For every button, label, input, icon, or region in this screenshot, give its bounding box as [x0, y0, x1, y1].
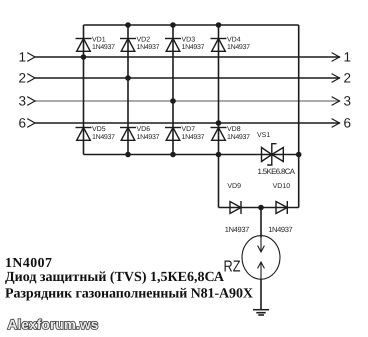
- wire column 2: [127, 25, 129, 155]
- wire line 2: [35, 77, 340, 79]
- junction node 4: [216, 120, 222, 126]
- wire bottom bus (anode bus): [84, 154, 299, 156]
- svg-text:1N4937: 1N4937: [137, 44, 160, 51]
- diode VD8: [211, 128, 227, 141]
- junction node 6: [170, 22, 176, 28]
- wire line 1: [35, 56, 340, 58]
- right pin label 1: [344, 50, 352, 65]
- wire line 3: [35, 100, 340, 102]
- junction node 5: [125, 22, 131, 28]
- svg-text:VD4: VD4: [227, 36, 241, 43]
- label VD7: [182, 126, 196, 133]
- label VD8: [227, 126, 241, 133]
- wire RZ bottom stem: [260, 279, 262, 309]
- right arrow line 3: [332, 97, 340, 106]
- label VD10: [273, 183, 291, 190]
- label VD5: [92, 126, 106, 133]
- svg-text:VS1: VS1: [257, 132, 270, 139]
- svg-text:1N4937: 1N4937: [92, 134, 115, 141]
- text TVS description: [5, 270, 225, 285]
- svg-text:1N4937: 1N4937: [225, 225, 250, 234]
- left pin label 2: [18, 71, 26, 86]
- svg-text:Разрядник газонаполненный N81-: Разрядник газонаполненный N81-A90X: [5, 286, 253, 301]
- right pin label 3: [344, 94, 352, 109]
- diode VD7: [165, 128, 181, 141]
- svg-text:RZ: RZ: [224, 259, 241, 276]
- wire right edge: [298, 25, 300, 208]
- value label VD5 1N4937: [92, 134, 115, 141]
- value label VD8 1N4937: [227, 134, 250, 141]
- label VD4: [227, 36, 241, 43]
- junction node 9: [170, 152, 176, 158]
- diode VD3: [165, 39, 181, 52]
- right arrow line 1: [332, 53, 340, 62]
- svg-text:2: 2: [344, 71, 352, 86]
- junction node 12: [258, 205, 264, 211]
- wire line 6: [35, 122, 340, 124]
- svg-text:VD9: VD9: [227, 183, 241, 190]
- svg-text:Alexforum.ws: Alexforum.ws: [8, 317, 99, 332]
- label RZ: [224, 259, 241, 276]
- ground: [253, 310, 269, 315]
- diode VD1: [76, 39, 92, 52]
- gas discharge tube RZ envelope: [242, 236, 280, 280]
- junction node 1: [81, 54, 87, 60]
- svg-text:1N4937: 1N4937: [182, 44, 205, 51]
- diode VD2: [120, 39, 136, 52]
- svg-text:1N4007: 1N4007: [5, 255, 52, 270]
- svg-text:VD8: VD8: [227, 126, 241, 133]
- junction node 11: [296, 152, 302, 158]
- text gas arrester description: [5, 286, 253, 301]
- wire column 1: [83, 25, 85, 155]
- left arrow line 1: [27, 53, 35, 62]
- label VD3: [182, 36, 196, 43]
- value label VD3 1N4937: [182, 44, 205, 51]
- wire column 4: [218, 25, 220, 208]
- left pin label 6: [18, 116, 26, 131]
- label VD9: [227, 183, 241, 190]
- svg-text:VD5: VD5: [92, 126, 106, 133]
- svg-text:1.5KE6.8CA: 1.5KE6.8CA: [258, 167, 296, 176]
- RZ bottom electrode arrow: [258, 262, 265, 279]
- diode VD10: [276, 201, 287, 214]
- junction node 3: [170, 98, 176, 104]
- left pin label 1: [18, 50, 26, 65]
- left arrow line 3: [27, 97, 35, 106]
- svg-text:1N4937: 1N4937: [92, 44, 115, 51]
- svg-text:1: 1: [18, 50, 26, 65]
- svg-text:3: 3: [18, 94, 26, 109]
- wire column 3: [172, 25, 174, 155]
- junction node 2: [125, 75, 131, 81]
- label VD6: [137, 126, 151, 133]
- svg-text:VD2: VD2: [137, 36, 151, 43]
- left pin label 3: [18, 94, 26, 109]
- svg-text:1N4937: 1N4937: [268, 225, 293, 234]
- svg-text:VD1: VD1: [92, 36, 106, 43]
- diode VD4: [211, 39, 227, 52]
- svg-text:1N4937: 1N4937: [182, 134, 205, 141]
- svg-text:3: 3: [344, 94, 352, 109]
- svg-text:VD6: VD6: [137, 126, 151, 133]
- svg-text:1: 1: [344, 50, 352, 65]
- RZ top electrode arrow: [258, 236, 265, 252]
- svg-text:2: 2: [18, 71, 26, 86]
- wire top bus (cathode bus): [84, 24, 299, 26]
- value label VD10 1N4937: [268, 225, 293, 234]
- diode VD9: [230, 201, 241, 214]
- svg-text:VD7: VD7: [182, 126, 196, 133]
- label VD2: [137, 36, 151, 43]
- svg-text:VD10: VD10: [273, 183, 291, 190]
- svg-text:1N4937: 1N4937: [227, 134, 250, 141]
- svg-text:1N4937: 1N4937: [137, 134, 160, 141]
- right pin label 2: [344, 71, 352, 86]
- label VS1: [257, 132, 270, 139]
- value label VD7 1N4937: [182, 134, 205, 141]
- svg-text:6: 6: [344, 116, 352, 131]
- junction node 10: [216, 152, 222, 158]
- diode VD6: [120, 128, 136, 141]
- label VD1: [92, 36, 106, 43]
- svg-text:Диод защитный (TVS) 1,5КЕ6,8СА: Диод защитный (TVS) 1,5КЕ6,8СА: [5, 270, 225, 285]
- right arrow line 6: [332, 119, 340, 128]
- text part number 1N4007: [5, 255, 52, 270]
- value label VD2 1N4937: [137, 44, 160, 51]
- value label VD9 1N4937: [225, 225, 250, 234]
- diode VD5: [76, 128, 92, 141]
- right arrow line 2: [332, 74, 340, 83]
- watermark Alexforum.ws: [8, 317, 99, 332]
- svg-text:1N4937: 1N4937: [227, 44, 250, 51]
- TVS diode VS1: [262, 144, 284, 165]
- wire RZ top stem: [260, 208, 262, 238]
- junction node 8: [125, 152, 131, 158]
- value label VD6 1N4937: [137, 134, 160, 141]
- junction node 7: [216, 22, 222, 28]
- value label VD1 1N4937: [92, 44, 115, 51]
- left arrow line 2: [27, 74, 35, 83]
- svg-text:VD3: VD3: [182, 36, 196, 43]
- left arrow line 6: [27, 119, 35, 128]
- value label VS1 1.5KE6.8CA: [258, 167, 296, 176]
- value label VD4 1N4937: [227, 44, 250, 51]
- right pin label 6: [344, 116, 352, 131]
- wire VD9-VD10 row: [219, 207, 299, 209]
- svg-text:6: 6: [18, 116, 26, 131]
